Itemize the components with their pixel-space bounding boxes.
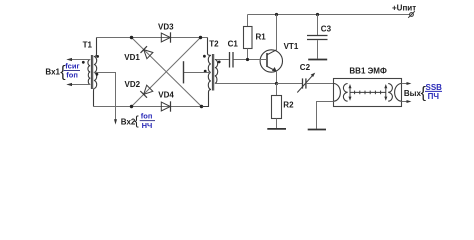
wire C1 to T2 [215,59,229,61]
wire T1 center tap [94,73,116,122]
T1 primary winding [88,60,90,85]
wire R1 bottom [247,49,249,60]
transducer left D [334,84,341,102]
svg-text:VD3: VD3 [158,22,174,31]
diode VD3 [161,32,170,42]
node T1 dot primary [82,61,85,64]
svg-text:fоп: fоп [66,70,78,79]
wire Вх1 bottom arrow [68,84,91,86]
plate bar at T2 tap [183,61,185,83]
capacitor C2 trimmer [303,78,306,88]
wire collector [276,15,278,50]
transducer right D [395,84,402,102]
node base-R1 [246,58,249,61]
wire filter bottom left pin [317,102,334,129]
ground R2 [267,128,286,130]
node T2 dot primary top [203,55,206,58]
svg-text:VD1: VD1 [124,53,140,62]
wire R2 bottom [276,119,278,129]
transducer right coil [388,84,392,102]
wire R1 top [247,15,249,27]
node T2 dot secondary [218,61,221,64]
diode VD4 [161,101,170,111]
transducer left coil [343,84,347,102]
T1 core [90,55,92,89]
svg-text:fоп: fоп [141,112,153,121]
svg-text:VD2: VD2 [125,80,141,89]
transistor VT1 [260,50,282,72]
svg-text:R1: R1 [256,32,267,41]
wire base [234,59,267,61]
capacitor C3 [307,36,328,40]
fraction line Вх2 [140,120,155,122]
ground C3 [308,59,327,61]
wire diagonal ascending [132,38,201,107]
fraction line Вх1 [64,70,80,72]
wire top power rail [248,14,410,16]
node mixer top-right [199,36,202,39]
T2 secondary winding [215,60,218,84]
wire diagonal descending [132,38,202,107]
transformer T2 [202,38,218,107]
wire output bottom arrow [402,101,410,103]
svg-text:T2: T2 [209,39,219,48]
svg-text:T1: T1 [83,41,93,50]
wire emitter down [276,71,278,84]
svg-text:Вх1: Вх1 [45,67,60,76]
resonator line [350,91,386,93]
svg-text:R2: R2 [283,101,294,110]
svg-text:C1: C1 [228,39,239,48]
node T1 dot secondary top [96,55,99,58]
wire C2 to filter [306,83,334,85]
svg-text:VT1: VT1 [284,42,299,51]
transformer T1 [88,38,97,107]
node mixer top-left [130,36,133,39]
T2 primary winding [208,38,211,56]
wire mixer top rail [97,37,208,39]
wire R2 top [276,84,278,96]
node T2 dot primary mid [204,70,207,73]
resonator ticks [355,91,381,95]
wire C3 top [317,15,319,36]
emitter arrowhead VT1 [272,67,277,72]
ground filter [308,129,326,131]
wire T2 secondary bottom to emitter [215,83,277,85]
svg-text:C2: C2 [300,63,311,72]
filter BB1 ЭМФ box [334,79,402,107]
T2 core [211,54,213,91]
resistor R2 [272,96,282,119]
terminal +Uпит [408,11,415,18]
wire emitter to C2 [277,83,303,85]
wire C3 bottom [317,40,319,59]
resistor R1 [244,27,253,49]
wire Вх1 top arrow [68,59,91,61]
svg-text:VD4: VD4 [158,91,174,100]
node mixer bottom-left [130,105,133,108]
svg-text:ПЧ: ПЧ [428,92,440,101]
node mixer bottom-right [200,105,203,108]
svg-text:{: { [134,113,139,128]
svg-text:+Uпит: +Uпит [392,3,416,12]
node C3-rail [316,13,319,16]
svg-text:Вых: Вых [404,89,422,98]
fraction line Вых [425,90,442,92]
arrow left vibration [349,86,351,100]
arrowhead Вх2 [114,119,117,124]
node T1 dot secondary bottom [96,73,99,76]
diode VD1 [141,46,153,59]
svg-text:fсиг: fсиг [65,62,79,71]
wire mixer bottom rail [94,106,202,108]
svg-text:НЧ: НЧ [142,121,153,130]
wire output top arrow [402,83,410,85]
diode VD2 [140,85,153,98]
svg-text:SSB: SSB [426,83,443,92]
svg-text:C3: C3 [321,25,332,34]
capacitor C1 [230,52,234,68]
node collector-rail [275,13,278,16]
node emitter junction [275,82,278,85]
wire T2 center tap [184,72,211,74]
T1 secondary winding [94,38,97,57]
arrow right vibration [385,86,387,100]
svg-text:BB1 ЭМФ: BB1 ЭМФ [349,67,387,76]
